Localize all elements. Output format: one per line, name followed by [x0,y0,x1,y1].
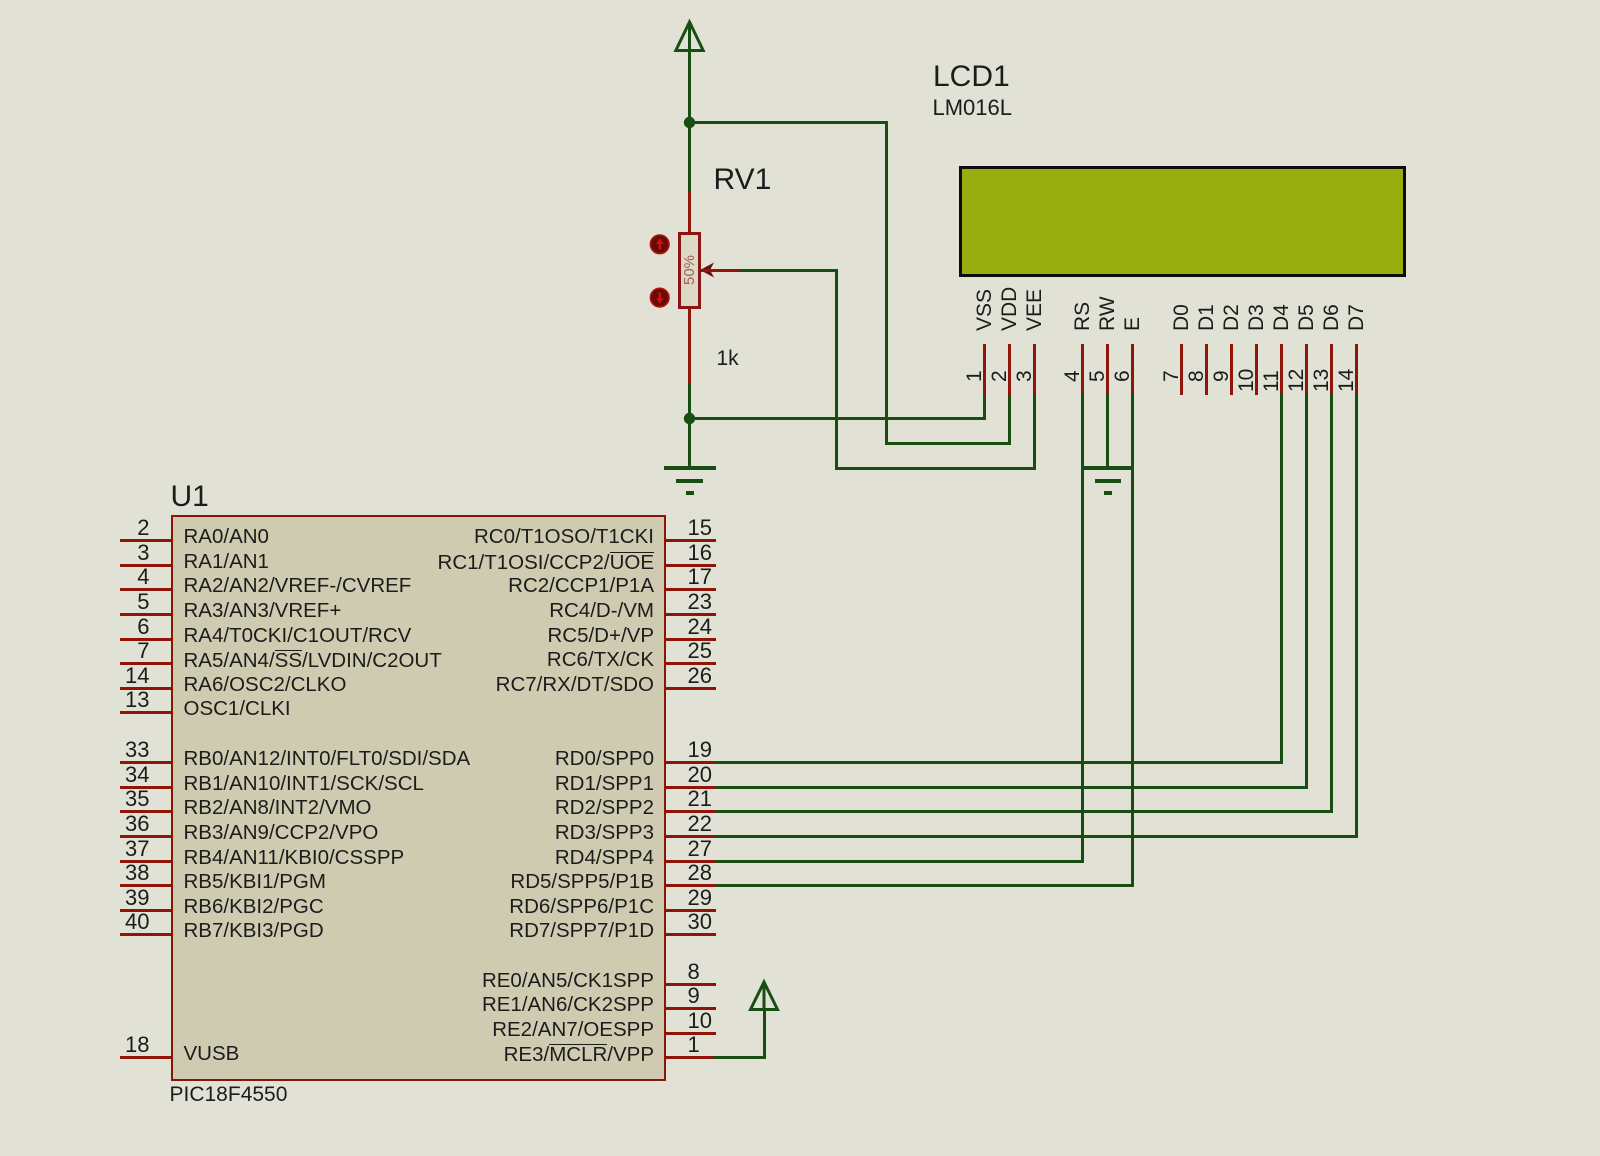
wire RS to RD4 [714,860,1084,863]
LCD pin 1 VSS [983,344,986,395]
wire top rail horizontal to VDD branch [688,121,888,124]
U1 pin 10 [666,1032,716,1035]
wire VEE pin drop [1033,394,1036,470]
LCD LCD1 screen body [959,166,1406,277]
wire power vertical (RE3) [763,1008,766,1059]
U1 pin 19 [666,761,716,764]
U1 pin 37 (RB4) [120,860,172,863]
wire D5 to RD1 [714,786,1308,789]
wire RE3 to power [714,1056,766,1059]
U1 pin 23 [666,613,716,616]
U1 pin 4 (RA2) [120,588,172,591]
U1 pin 5 (RA3) [120,613,172,616]
wire wiper to VEE horizontal [835,467,1036,470]
U1 pin 1 [666,1056,716,1059]
wire E to RD5 [714,884,1134,887]
label PIC18F4550 [170,1084,288,1105]
U1 pin 24 [666,638,716,641]
U1 pin 26 [666,687,716,690]
U1 pin 29 [666,909,716,912]
potentiometer RV1 body [678,232,701,309]
U1 pin 7 (RA5) [120,662,172,665]
U1 pin 21 [666,810,716,813]
U1 pin 16 [666,564,716,567]
wire VDD branch vertical [885,121,888,445]
junction node A (top) [683,116,697,130]
LCD pin 5 RW [1106,344,1109,395]
U1 pin 9 [666,1007,716,1010]
ground symbol (main) [664,466,716,470]
LCD pin 8 D1 [1205,344,1208,395]
LCD pin 2 VDD [1008,344,1011,395]
U1 pin 28 [666,884,716,887]
RV1 decrement button (down arrow) [649,287,671,309]
pin RV1 bottom stub [688,307,691,385]
U1 pin 18 (VUSB) [120,1056,172,1059]
LCD pin 12 D5 [1305,344,1308,395]
value 1k [717,348,739,369]
LCD pin 13 D6 [1330,344,1333,395]
LCD pin 9 D2 [1230,344,1233,395]
wire VDD branch horizontal [885,442,1011,445]
LCD pin 10 D3 [1255,344,1258,395]
wire junction to ground [688,418,691,467]
U1 pin 13 (OSC1) [120,711,172,714]
U1 pin 15 [666,539,716,542]
label LM016L [933,97,1013,119]
U1 pin 33 (RB0) [120,761,172,764]
U1 pin 22 [666,835,716,838]
U1 pin 25 [666,662,716,665]
ground symbol (RW) [1082,466,1132,470]
LCD pin 3 VEE [1033,344,1036,395]
U1 pin 39 (RB6) [120,909,172,912]
wire wiper vertical down [835,269,838,470]
wire power top vertical [688,22,691,124]
wire D7 vertical [1355,394,1358,838]
wire E vertical [1131,394,1134,887]
LCD pin 14 D7 [1355,344,1358,395]
wire wiper horizontal [739,269,838,272]
IC U1 body (PIC18F4550) [171,515,666,1081]
RV1 increment button (up arrow) [649,234,671,256]
label U1 [171,482,209,512]
LCD pin 7 D0 [1180,344,1183,395]
wire D6 to RD2 [714,810,1333,813]
U1 pin 35 (RB2) [120,810,172,813]
pin RV1 top stub [688,191,691,233]
U1 pin 6 (RA4) [120,638,172,641]
wire RV1 bottom to junction [688,384,691,420]
U1 pin 36 (RB3) [120,835,172,838]
label RV1 [714,165,772,195]
wire VDD pin drop [1008,394,1011,445]
wire RS vertical [1081,394,1084,863]
U1 pin 34 (RB1) [120,786,172,789]
wire D6 vertical [1330,394,1333,813]
RV1 wiper arrowhead [698,258,718,282]
U1 pin 20 [666,786,716,789]
U1 pin 38 (RB5) [120,884,172,887]
power terminal (VCC) top [670,17,710,59]
U1 pin 8 [666,983,716,986]
U1 pin 14 (RA6) [120,687,172,690]
wire VSS pin drop [983,394,986,420]
U1 pin 2 (RA0) [120,539,172,542]
U1 pin 27 [666,860,716,863]
wire D4 vertical [1280,394,1283,764]
value 50% (rotated) [682,254,697,284]
wire D7 to RD3 [714,835,1358,838]
power terminal (VCC) near RE3 [745,977,785,1017]
wire D4 to RD0 [714,761,1283,764]
LCD pin 4 RS [1081,344,1084,395]
pin RV1 wiper stub [700,269,740,272]
U1 pin 30 [666,933,716,936]
LCD pin 6 E [1131,344,1134,395]
wire RW to ground [1106,394,1109,467]
label LCD1 [933,62,1010,92]
U1 pin 17 [666,588,716,591]
junction node B (ground rail) [683,412,697,426]
U1 pin 40 (RB7) [120,933,172,936]
LCD pin 11 D4 [1280,344,1283,395]
wire ground rail horizontal to VSS [688,417,986,420]
wire junction to RV1 top [688,122,691,192]
U1 pin 3 (RA1) [120,564,172,567]
wire D5 vertical [1305,394,1308,789]
